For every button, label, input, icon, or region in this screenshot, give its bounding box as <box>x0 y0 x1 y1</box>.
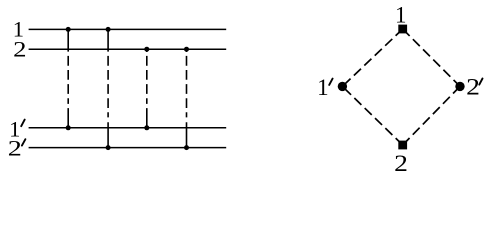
line 2 (horizontal) <box>29 48 227 50</box>
node dot on line 2' at v2 <box>106 145 111 150</box>
svg-text:1: 1 <box>317 75 329 100</box>
chord 1-2' (dashed vertical v2) <box>107 29 109 147</box>
node dot on line 1' at v1 <box>66 125 71 130</box>
edge 1-1' (diamond, dashed) <box>342 29 402 86</box>
label 2 (left figure, line 2) <box>13 37 26 62</box>
chord 2-1' (dashed vertical v3) <box>146 49 148 128</box>
edge 1-2' (diamond, dashed) <box>403 29 460 86</box>
label 1' (left figure, line 1') <box>9 116 25 141</box>
label 1' (diamond left) <box>317 75 332 100</box>
chord 1-1' (dashed vertical v1) <box>67 29 69 127</box>
svg-text:2: 2 <box>394 151 408 176</box>
svg-text:2: 2 <box>466 75 480 100</box>
vertex 2' (filled circle marker, right) <box>455 82 464 91</box>
svg-text:2: 2 <box>13 37 26 62</box>
line 2' (horizontal) <box>29 147 227 149</box>
label 2 (diamond bottom) <box>394 151 408 176</box>
line 1' (horizontal) <box>29 127 227 129</box>
edge 2-2' (diamond, dashed) <box>403 86 460 145</box>
node dot on line 1' at v3 <box>144 125 149 130</box>
node dot on line 2 at v4 <box>184 47 189 52</box>
chord 2-2' (dashed vertical v4) <box>186 49 188 147</box>
edge 2-1' (diamond, dashed) <box>342 86 402 145</box>
node dot on line 2 at v3 <box>144 47 149 52</box>
vertex 2 (filled square marker, bottom) <box>398 141 407 150</box>
node dot on line 1 at v2 <box>106 27 111 32</box>
node dot on line 1 at v1 <box>66 27 71 32</box>
label 2' (left figure, line 2') <box>8 135 26 161</box>
svg-text:2: 2 <box>8 135 22 161</box>
svg-text:1: 1 <box>395 3 407 28</box>
label 2' (diamond right) <box>466 75 482 100</box>
line 1 (horizontal) <box>29 28 227 30</box>
vertex 1 (filled square marker, top) <box>398 25 407 34</box>
node dot on line 2' at v4 <box>184 145 189 150</box>
vertex 1' (filled circle marker, left) <box>338 82 347 91</box>
